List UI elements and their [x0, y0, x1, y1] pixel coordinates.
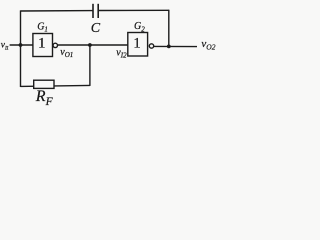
junction: node vI1 dot — [19, 43, 23, 47]
wire: coupling wire from G1 output to G2 input — [58, 44, 128, 46]
wire: input stub to gate G1 — [10, 44, 34, 46]
wire: top feedback wire, left segment to capacitor — [21, 10, 93, 12]
wire: right vertical wire from top to output node — [168, 10, 170, 47]
capacitor C plates — [93, 4, 98, 18]
inverter G2 output bubble — [149, 44, 153, 48]
inverter G1 output bubble — [53, 43, 57, 47]
wire: top feedback wire, right segment from capacitor — [99, 9, 169, 11]
svg-text:1: 1 — [133, 36, 141, 52]
wire: left vertical feedback wire — [20, 10, 22, 87]
svg-text:C: C — [91, 21, 101, 36]
junction: output node dot — [167, 45, 171, 49]
inverter U2 (gate G2) box — [128, 33, 148, 57]
svg-text:1: 1 — [38, 35, 46, 51]
junction: node vO1 feedback dot — [88, 43, 92, 47]
resistor RF box — [34, 80, 54, 88]
wire: output wire to vO2 — [154, 45, 197, 47]
inverter U1 (gate G1) box — [33, 34, 53, 57]
wire: middle vertical wire from vO1 node down to RF loop — [89, 45, 91, 86]
wire: bottom feedback wire — [21, 85, 90, 86]
